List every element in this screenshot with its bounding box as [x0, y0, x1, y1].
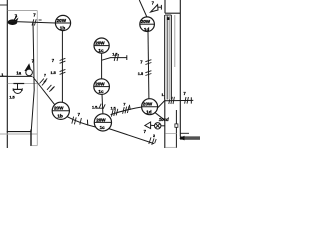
- svg-text:1c: 1c: [98, 89, 104, 94]
- arrow bottom-right: [145, 122, 151, 129]
- svg-text:20W: 20W: [54, 106, 64, 111]
- ticks branch: [114, 54, 118, 61]
- wire E to hub: [67, 117, 96, 128]
- ticks F-G group2: [145, 71, 151, 76]
- wire outlet to lamp 1b: [8, 21, 56, 23]
- arrow F: [151, 5, 158, 12]
- ticks C-hub: [99, 104, 105, 109]
- svg-text:20W: 20W: [95, 82, 105, 87]
- ticks down-right: [149, 137, 156, 145]
- partition gray top-left room: [0, 11, 37, 146]
- svg-text:1c: 1c: [98, 48, 104, 53]
- wall top-right box: [165, 0, 180, 13]
- margin tick top-left: [0, 4, 8, 6]
- wire diag into F: [139, 0, 147, 17]
- svg-text:10cd: 10cd: [159, 117, 169, 122]
- ticks F-G group1: [145, 60, 151, 65]
- hub up-right wire: [111, 107, 142, 115]
- T bar: [128, 105, 131, 110]
- svg-text:1.5: 1.5: [92, 106, 97, 110]
- wire drop vertical: [31, 22, 34, 132]
- tick T right of turn: [39, 19, 42, 21]
- lamp G 20W 1d bottom: [142, 99, 158, 115]
- ticks A down group2: [60, 69, 66, 74]
- duct double line bottom-right: [180, 137, 200, 140]
- ticks E-hub: [72, 117, 82, 125]
- mount bar bowl lamp: [13, 83, 24, 85]
- svg-text:20W: 20W: [95, 41, 105, 46]
- shaft: [165, 15, 172, 100]
- lamp F 20W 1d top: [140, 17, 155, 32]
- svg-text:1d: 1d: [146, 109, 152, 114]
- svg-text:1c: 1c: [100, 125, 106, 130]
- wire A down: [61, 31, 63, 103]
- hub down-right wire: [109, 129, 154, 144]
- svg-text:7: 7: [123, 102, 125, 106]
- duct arrowhead: [179, 136, 185, 141]
- svg-text:1.5: 1.5: [9, 95, 14, 99]
- svg-text:20W: 20W: [96, 117, 106, 122]
- lamp X circle-cross: [155, 123, 161, 129]
- ledge line bottom-right: [180, 132, 189, 134]
- arrow outlet: [13, 16, 17, 22]
- lamp 1a triangle: [24, 63, 31, 71]
- lamp B 20W 1c: [94, 38, 109, 53]
- partition gray closet: [8, 83, 38, 85]
- svg-text:1a: 1a: [16, 71, 21, 76]
- gray wall line right: [174, 15, 176, 67]
- svg-text:1b: 1b: [60, 26, 66, 31]
- wire B to C: [101, 53, 103, 79]
- wall below shaft: [164, 100, 166, 149]
- branch B right: [102, 58, 127, 61]
- stem bowl lamp: [17, 84, 19, 89]
- gray box bottom-right: [165, 134, 176, 148]
- T bar: [97, 107, 104, 109]
- ticks diag group2: [47, 85, 55, 92]
- svg-text:1b: 1b: [57, 113, 63, 118]
- wire G right: [158, 100, 193, 107]
- wall right outer: [179, 0, 181, 137]
- ticks A down group1: [60, 58, 66, 63]
- ticks right wire: [169, 97, 175, 104]
- wire wall to 1a: [8, 75, 33, 77]
- ticks wire top-left: [32, 19, 36, 25]
- svg-text:1.5: 1.5: [51, 71, 56, 75]
- lamp C 20W 1c: [94, 79, 110, 95]
- T end right: [190, 97, 192, 103]
- lamp E 20W 1b: [52, 102, 69, 119]
- svg-text:7: 7: [44, 74, 46, 78]
- ticks right wire group2: [185, 97, 189, 104]
- wire G down-right: [155, 113, 164, 120]
- svg-text:1.5: 1.5: [111, 107, 116, 111]
- lamp A 20W 1b: [55, 15, 70, 30]
- C mark: [175, 124, 178, 127]
- ticks near T: [123, 106, 129, 114]
- shaft bottom cap: [164, 97, 171, 99]
- shaft dot: [167, 17, 170, 20]
- svg-text:1.5: 1.5: [112, 53, 117, 57]
- wall bottom-left: [7, 131, 31, 133]
- hub lamp D 20W 1c: [94, 114, 111, 131]
- wire F to G: [147, 32, 150, 99]
- wire C to hub: [101, 94, 104, 114]
- hub left T-bar: [86, 120, 88, 126]
- svg-text:20W: 20W: [57, 18, 67, 23]
- wall left: [6, 0, 8, 148]
- svg-text:1d: 1d: [144, 27, 150, 32]
- outlet S1: [8, 18, 19, 26]
- lamp 1a circle: [26, 69, 33, 76]
- ticks diag group1 + T: [40, 78, 48, 85]
- ticks near hub: [111, 109, 117, 117]
- T end branch: [126, 55, 128, 60]
- svg-text:20W: 20W: [143, 102, 153, 107]
- margin tick mid-left: [0, 75, 8, 77]
- svg-text:2: 2: [153, 134, 155, 138]
- svg-text:1.5: 1.5: [138, 72, 143, 76]
- bowl lamp: [13, 88, 22, 90]
- wire 1a to lamp E diagonal: [33, 77, 55, 105]
- svg-text:20W: 20W: [141, 19, 151, 24]
